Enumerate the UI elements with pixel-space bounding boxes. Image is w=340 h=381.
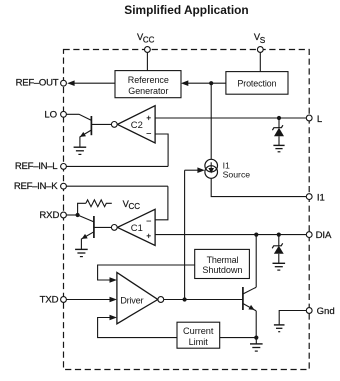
ground (Q-RXD emitter): [75, 249, 88, 256]
junction dot DIA/collector: [254, 233, 258, 237]
ground (Gnd pin): [274, 325, 285, 332]
svg-text:+: +: [146, 231, 151, 240]
svg-text:Reference: Reference: [128, 75, 169, 85]
pin L: [306, 115, 312, 121]
wire C1 plus to DIA pin: [155, 234, 309, 236]
wire Gnd pin to ground: [279, 311, 309, 325]
svg-text:DIA: DIA: [316, 230, 332, 241]
op-amp C1: [111, 209, 155, 245]
pin VS: [257, 47, 263, 53]
box Current Limit: [177, 322, 220, 348]
pin DIA: [306, 232, 312, 238]
junction dot RXD node: [76, 213, 80, 217]
resistor R-RXD pullup to VCC: [78, 200, 112, 215]
wire current limit to driver input (arrow): [98, 315, 177, 338]
wire junction to ground below: [255, 338, 257, 344]
wire driver output up to I1 source control (arrow): [185, 167, 205, 299]
label I1 Source: [223, 160, 251, 179]
wire I1 source to I1 pin: [211, 178, 309, 196]
wire C2 minus to REF-IN-L: [155, 134, 168, 166]
junction dot DIA/zener: [277, 233, 281, 237]
junction dot driver output: [183, 297, 187, 301]
junction dot emitter/current-limit/ground: [254, 336, 258, 340]
svg-text:RXD: RXD: [39, 210, 59, 221]
pin REF-IN-L: [61, 164, 67, 170]
svg-text:TXD: TXD: [40, 295, 59, 306]
zener diode at L: [272, 118, 284, 145]
ground (zener DIA): [273, 263, 286, 270]
wire driver output to Q-OUT base: [164, 299, 243, 301]
svg-text:Gnd: Gnd: [317, 306, 335, 317]
svg-text:Driver: Driver: [120, 295, 143, 305]
svg-text:Current: Current: [183, 326, 214, 336]
svg-text:LO: LO: [44, 110, 57, 121]
wire C1 minus to REF-IN-K: [155, 186, 168, 220]
pin RXD: [61, 212, 67, 218]
wire VCC pin to Reference Generator: [146, 50, 148, 71]
svg-text:S: S: [260, 35, 266, 45]
transistor Q-RXD: [78, 215, 112, 249]
transistor Q-LO: [80, 116, 112, 147]
wire thermal shutdown to driver input (arrow): [98, 265, 195, 283]
ground (Q-LO emitter): [74, 147, 87, 154]
driver amplifier triangle: [117, 273, 164, 324]
svg-text:Protection: Protection: [237, 78, 276, 88]
pin LO: [61, 111, 67, 117]
pin VCC: [145, 47, 151, 53]
ground (Q-OUT emitter): [250, 344, 263, 351]
svg-text:REF–IN–L: REF–IN–L: [15, 161, 58, 172]
wire current limit to emitter node: [220, 337, 257, 339]
box Reference Generator: [115, 71, 181, 98]
junction dot A (ref wire / I1 source): [209, 81, 213, 85]
svg-text:REF–IN–K: REF–IN–K: [14, 181, 58, 192]
wire TXD to driver input (arrow): [64, 297, 117, 303]
svg-text:REF–OUT: REF–OUT: [16, 77, 59, 88]
transistor Q-OUT: [243, 235, 256, 338]
svg-text:Generator: Generator: [128, 86, 168, 96]
wire REF-IN-K: [64, 185, 168, 187]
op-amp C2: [111, 106, 155, 143]
svg-text:Simplified Application: Simplified Application: [124, 3, 248, 17]
svg-text:Limit: Limit: [189, 337, 209, 347]
wire Reference Generator to REF-OUT pin (arrow): [67, 80, 115, 86]
zener diode at DIA: [272, 235, 283, 264]
wire LO pin to transistor collector: [64, 114, 92, 120]
svg-text:Source: Source: [223, 170, 251, 180]
svg-text:L: L: [317, 114, 323, 125]
wire C2 plus input to L pin: [155, 117, 309, 119]
svg-text:Thermal: Thermal: [207, 255, 239, 265]
wire junction vertical down to I1 source: [210, 83, 212, 159]
svg-text:CC: CC: [143, 36, 155, 45]
pin REF-IN-K: [61, 183, 67, 189]
label VS: [254, 32, 266, 45]
svg-text:I1: I1: [317, 192, 325, 203]
pin REF-OUT: [61, 80, 67, 86]
ground (zener L): [273, 145, 284, 151]
wire VS pin to Protection: [259, 50, 261, 72]
svg-text:C1: C1: [131, 222, 143, 233]
label VCC: [137, 32, 155, 45]
svg-text:−: −: [146, 129, 151, 139]
svg-text:C2: C2: [131, 119, 143, 130]
wire REF-IN-L: [64, 165, 169, 167]
wire Protection to junction to Reference Generator (arrow): [181, 80, 226, 86]
current source I1: [205, 159, 218, 178]
IC boundary dashed box: [64, 50, 310, 370]
box Protection: [226, 72, 288, 95]
svg-text:CC: CC: [129, 202, 141, 211]
pin TXD: [61, 297, 67, 303]
box Thermal Shutdown: [195, 249, 250, 278]
svg-text:Shutdown: Shutdown: [202, 265, 242, 275]
pin Gnd: [306, 308, 312, 314]
junction dot zener L: [277, 116, 281, 120]
pin I1: [306, 194, 312, 200]
svg-text:+: +: [146, 114, 151, 123]
label VCC (resistor): [123, 199, 141, 211]
wire RXD pin to node: [64, 214, 78, 216]
svg-text:−: −: [146, 216, 151, 226]
